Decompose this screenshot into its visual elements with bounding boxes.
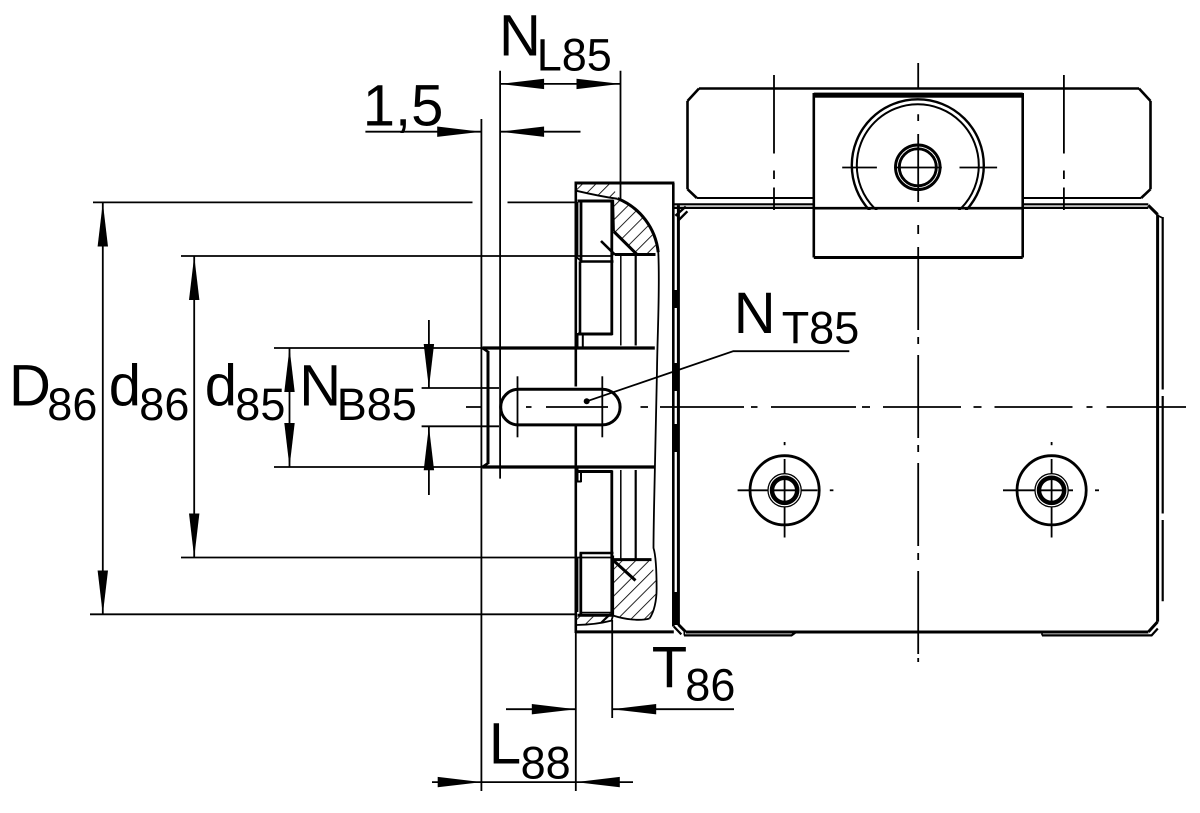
ext line y=386.5 (NB85 top) xyxy=(422,387,499,389)
leader line xyxy=(587,351,850,401)
crosshair slot left arc xyxy=(517,376,519,437)
slot obround xyxy=(501,389,620,425)
top counterbore top cap xyxy=(578,200,614,203)
svg-text:85: 85 xyxy=(235,379,285,430)
top hatch band boundary xyxy=(577,191,618,199)
bottom counterbore bottom cap xyxy=(578,614,614,617)
svg-text:N: N xyxy=(299,353,341,418)
svg-text:N: N xyxy=(499,4,541,69)
ext line y=425.5 (NB85 bottom) xyxy=(422,425,499,427)
top counterbore left wall xyxy=(580,201,583,262)
saddle bottom-left chamfer xyxy=(688,189,697,198)
boss bottom edge xyxy=(483,465,655,468)
label N_B85 xyxy=(299,353,416,430)
flange top edge xyxy=(576,182,675,185)
saddle bottom-right chamfer xyxy=(1141,189,1150,198)
channel jog lower xyxy=(577,467,579,481)
body right offset top tick xyxy=(1158,216,1163,219)
right hole outer circle xyxy=(1017,456,1086,525)
label N_T85 xyxy=(734,281,860,354)
body bottom offset right step xyxy=(1041,633,1043,636)
lube port outer circle xyxy=(852,99,984,231)
bottom hatch band xyxy=(577,617,612,625)
label T_86 xyxy=(652,636,736,711)
top wedge bottom line xyxy=(615,253,656,256)
right hole ring xyxy=(1038,477,1066,505)
central block left wall xyxy=(812,93,815,258)
body left face notch 3 xyxy=(673,424,679,452)
ext line y=614.3 (D86 bottom) xyxy=(90,613,575,615)
body bottom-left inner chamfer xyxy=(678,625,685,633)
leader dot xyxy=(584,398,590,404)
crosshair left hole xyxy=(784,459,786,538)
bottom counterbore seat line xyxy=(582,612,612,614)
top wedge hatch xyxy=(614,200,657,255)
flange left edge upper xyxy=(574,182,577,387)
label d_86 xyxy=(109,353,190,430)
channel wall left upper xyxy=(579,262,582,335)
top counterbore right wall xyxy=(610,201,613,335)
bottom counterbore left wall xyxy=(579,553,582,616)
saddle bottom edge right xyxy=(1023,197,1141,199)
svg-text:T85: T85 xyxy=(782,303,860,354)
central block top band xyxy=(814,93,1023,98)
arrowhead N_L85 left xyxy=(500,79,544,89)
arrowhead N_B85 top xyxy=(424,344,434,388)
body bottom-left outer chamfer xyxy=(674,627,682,635)
svg-text:d: d xyxy=(205,353,237,418)
bottom wedge top line xyxy=(613,558,652,561)
top wedge left wall xyxy=(611,200,614,232)
left hole outer circle xyxy=(750,456,819,525)
bottom counterbore right wall xyxy=(610,471,613,617)
centerline horizontal main xyxy=(466,406,1186,408)
top counterbore corner chamfer xyxy=(577,257,583,262)
dim line N_L85 xyxy=(500,83,620,85)
recess floor line xyxy=(814,207,1023,210)
body left face notch 2 xyxy=(673,363,679,391)
ext line y=557.5 (d86 bottom) xyxy=(181,557,611,559)
boss left face xyxy=(487,351,490,464)
central block bottom edge xyxy=(814,256,1023,259)
arrowhead D_86 bottom xyxy=(98,571,108,615)
body bottom offset right segment xyxy=(1042,629,1158,636)
body top edge right part xyxy=(1023,203,1149,205)
arrowhead d_86 bottom xyxy=(189,514,199,558)
ext line x=612.2 below flange xyxy=(611,620,613,718)
flange bottom edge xyxy=(576,630,674,633)
bottom counterbore top cap xyxy=(580,552,614,555)
svg-text:L85: L85 xyxy=(537,29,612,80)
channel connector lower xyxy=(578,470,613,473)
ext line y=466.8 (d85 bottom) xyxy=(274,466,486,468)
saddle bottom edge left xyxy=(697,197,814,199)
ext line y=347 (d85 top) xyxy=(274,347,486,349)
ext line y=202.4 (D86 top) xyxy=(93,201,473,203)
arrowhead d_85 bottom xyxy=(284,423,294,467)
label L_88 xyxy=(489,711,571,788)
channel connector upper xyxy=(578,333,613,336)
top wedge second diagonal xyxy=(601,241,615,255)
ext line x=620.5 (slot right) xyxy=(620,71,622,199)
body right offset line segments xyxy=(1162,217,1164,390)
dim line T_86 right xyxy=(612,708,734,710)
bottom wedge diagonal xyxy=(614,561,636,581)
centerline vertical main xyxy=(917,63,919,662)
bottom wedge second diagonal xyxy=(602,614,611,623)
top counterbore left step xyxy=(577,202,579,256)
dim line d_85 xyxy=(289,348,291,467)
bottom wavy boundary xyxy=(577,616,650,626)
central block right wall xyxy=(1021,93,1024,258)
saddle top-right chamfer xyxy=(1139,89,1151,102)
body left outer face xyxy=(672,183,675,627)
saddle right edge xyxy=(1149,101,1152,189)
ext line x=481.5 xyxy=(480,119,482,791)
dim line D_86 xyxy=(102,203,104,615)
crosshair big circle horizontal xyxy=(842,167,877,169)
left hole ring xyxy=(771,477,799,505)
body top-right chamfer xyxy=(1148,205,1157,214)
arrowhead T_86 left xyxy=(532,704,576,714)
wavy break line right xyxy=(650,252,659,619)
thin pair upper xyxy=(620,255,622,346)
body bottom offset left step xyxy=(683,632,685,635)
body right face xyxy=(1156,215,1159,622)
ext line y=256 (d86 top) xyxy=(181,255,611,257)
top hatch band xyxy=(577,184,618,199)
arrowhead 1,5 left xyxy=(437,127,481,137)
svg-text:1,5: 1,5 xyxy=(363,73,444,138)
body left inner face xyxy=(677,205,680,624)
body bottom offset left segment xyxy=(684,633,796,636)
svg-text:L: L xyxy=(489,711,521,776)
dim line L_88 xyxy=(432,781,633,783)
dim line T_86 left xyxy=(506,708,576,710)
svg-text:86: 86 xyxy=(139,379,189,430)
arrowhead D_86 top xyxy=(98,203,108,247)
svg-text:d: d xyxy=(109,353,141,418)
saddle top edge xyxy=(699,87,1139,90)
dim line 1,5 left xyxy=(365,131,481,133)
arrowhead 1,5 right xyxy=(500,127,544,137)
svg-text:B85: B85 xyxy=(337,379,417,430)
svg-text:N: N xyxy=(734,281,776,346)
body bottom-right chamfer xyxy=(1148,622,1157,632)
label N_L85 xyxy=(499,4,612,81)
crosshair right hole xyxy=(1051,459,1053,538)
svg-text:88: 88 xyxy=(521,737,571,788)
thin pair lower xyxy=(620,470,622,560)
body left face notch 4 xyxy=(673,592,679,625)
boss top chamfer xyxy=(483,348,489,352)
arrowhead L_88 left xyxy=(438,777,482,787)
label d_85 xyxy=(205,353,286,430)
arrowhead L_88 right xyxy=(576,777,620,787)
boss top edge xyxy=(483,346,655,349)
body left face notch 1 xyxy=(673,290,679,308)
bottom counterbore left step xyxy=(577,558,579,612)
svg-text:86: 86 xyxy=(47,379,97,430)
top counterbore bottom cap xyxy=(580,260,614,263)
bottom wedge left wall xyxy=(611,556,614,616)
svg-text:86: 86 xyxy=(685,659,735,710)
dim line N_B85 lower xyxy=(428,426,430,495)
dim line N_B85 upper xyxy=(428,320,430,388)
channel step verticals upper xyxy=(577,333,579,348)
crosshair slot right arc xyxy=(601,376,603,437)
body top-left corner diagonals xyxy=(675,207,685,216)
arrowhead N_L85 right xyxy=(577,79,621,89)
dim line 1,5 right xyxy=(500,131,580,133)
ext line x=500 (slot left) xyxy=(499,71,501,479)
ext line x=575.8 below flange xyxy=(575,632,577,791)
top wedge diagonal xyxy=(614,232,637,255)
centerline saddle right xyxy=(1063,75,1065,210)
lube port small circles xyxy=(896,145,941,190)
arrowhead N_B85 bottom xyxy=(424,426,434,470)
centerline saddle left xyxy=(773,75,775,210)
saddle left edge xyxy=(686,101,689,189)
arrowhead d_86 top xyxy=(189,256,199,300)
body bottom edge xyxy=(686,631,1149,634)
body top edge left part xyxy=(675,203,814,205)
saddle top-left chamfer xyxy=(688,89,700,102)
arrowhead T_86 right xyxy=(612,704,656,714)
arrowhead d_85 top xyxy=(284,348,294,392)
dim line d_86 xyxy=(193,256,195,558)
svg-text:T: T xyxy=(652,636,687,701)
label D_86 xyxy=(9,353,97,430)
svg-text:D: D xyxy=(9,353,51,418)
flange left edge lower xyxy=(574,426,577,634)
boss bottom chamfer xyxy=(483,463,489,467)
bottom wedge hatch xyxy=(613,560,657,620)
top outer curve xyxy=(618,199,659,253)
